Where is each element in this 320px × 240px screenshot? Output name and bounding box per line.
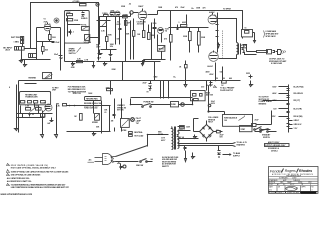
label fuse note rows (162, 157, 179, 168)
svg-text:.047: .047 (47, 122, 50, 125)
diode D4 bridge SE (209, 134, 211, 136)
legend row hot (129, 134, 144, 137)
svg-text:25uF: 25uF (96, 47, 100, 49)
wire cathode net (37, 42, 53, 47)
svg-text:HEATERS: HEATERS (237, 144, 246, 147)
tube V5 12AX7 recovery (44, 103, 52, 112)
label mixer row lower (56, 103, 67, 107)
svg-text:V5: V5 (44, 103, 46, 105)
svg-text:Rhodes: Rhodes (299, 169, 312, 173)
node dot bus a (215, 80, 217, 82)
wire B+ top bus (158, 11, 243, 30)
wire mains runs (131, 99, 193, 105)
resistor R1 trim input (11, 37, 24, 40)
wire V2 drops (100, 17, 126, 45)
svg-text:BL-R (TR): BL-R (TR) (294, 109, 303, 111)
node circle left V3 (130, 11, 133, 14)
wire V1 row (37, 27, 61, 29)
node dot bias (207, 110, 209, 112)
capacitor second stage mid (119, 27, 122, 32)
label top band extras (121, 4, 231, 11)
wire main bus (19, 80, 241, 82)
ground line filter (192, 153, 195, 159)
transformer T2 output (237, 43, 249, 55)
node circle bias (208, 104, 211, 107)
potentiometer treble (81, 23, 89, 30)
label second stage extras (101, 22, 121, 41)
plug AC mains (89, 154, 116, 165)
box hum balance (223, 115, 253, 127)
tube V4 vibrato (158, 28, 169, 34)
svg-text:ALL CAPACITORS 600V 20%: ALL CAPACITORS 600V 20% (7, 177, 30, 180)
svg-text:RD (CT): RD (CT) (294, 100, 301, 102)
svg-text:SPKR JACK: SPKR JACK (266, 35, 277, 38)
svg-text:6L6GC: 6L6GC (207, 66, 213, 68)
label heaters (237, 141, 248, 147)
resistor 220K slope (66, 12, 72, 16)
connector CP1 strip (287, 85, 290, 133)
wire bus taps (111, 45, 211, 99)
svg-text:T47: T47 (136, 122, 139, 125)
svg-text:V4: V4 (165, 30, 167, 33)
svg-text:DR: DR (278, 186, 280, 188)
label plate supply rows (220, 87, 235, 92)
resistor vib r1 (126, 31, 135, 37)
wire lower rows (17, 105, 57, 134)
resistor mid vert (74, 114, 82, 121)
svg-text:POWER SW: POWER SW (144, 101, 154, 103)
svg-text:8 OHM LOAD: 8 OHM LOAD (271, 62, 283, 65)
title block hline 2 (268, 178, 318, 180)
svg-text:www.schematicheaven.com: www.schematicheaven.com (1, 193, 33, 196)
wire dashes col (222, 31, 224, 58)
title block signature oval (286, 186, 298, 190)
wire input shield drop (22, 28, 37, 59)
wire tone net (68, 16, 81, 37)
box bias supply (191, 91, 206, 101)
svg-text:POT A: POT A (81, 23, 87, 26)
resistor 470K feedback (106, 86, 113, 90)
ground input jack (20, 59, 23, 63)
wire second stage coupling row (99, 16, 131, 18)
label reverb unit rows (25, 94, 38, 98)
svg-text:SAFETY: SAFETY (162, 165, 170, 168)
svg-text:AC: AC (89, 159, 93, 162)
wire ground row mid (121, 61, 161, 63)
label vib extras (137, 21, 157, 25)
tube V6A 6L6 upper (208, 12, 217, 24)
label dwell rows (84, 103, 102, 109)
ground mains safety (185, 151, 187, 162)
ground stage right (93, 62, 95, 68)
capacitor 25uF lower a (97, 50, 103, 60)
jack J1 mic input (3, 47, 24, 52)
svg-text:HIGH GAIN OPTIONAL MODEL ASSEM: HIGH GAIN OPTIONAL MODEL ASSEMBLY ONLY (11, 167, 57, 170)
svg-text:.01: .01 (104, 112, 106, 114)
wire sec mid (178, 138, 199, 140)
lamp pilot (131, 118, 142, 125)
svg-text:SWITCH: SWITCH (69, 53, 77, 55)
svg-text:SOME OPTIONAL USE CAPACITOR SE: SOME OPTIONAL USE CAPACITOR SELECTED FOR… (11, 170, 69, 173)
ground arrow b (36, 59, 38, 60)
resistor vib r2 (137, 31, 145, 38)
svg-text:REVERB: REVERB (29, 77, 37, 79)
wire heater lines (178, 143, 236, 147)
svg-text:B+: B+ (174, 76, 176, 78)
capacitor bass .1 (69, 30, 74, 35)
resistor driver plate (164, 35, 172, 43)
node dot bus c (130, 104, 132, 106)
svg-text:.1: .1 (72, 31, 73, 33)
box standby cell (240, 126, 253, 132)
label 470 top bridge (201, 85, 216, 88)
resistor lower r2 (35, 106, 41, 111)
resistor grid b 220K (198, 32, 206, 46)
label bias box right (206, 91, 214, 96)
box intensity pot (158, 46, 165, 52)
svg-text:22uF: 22uF (54, 54, 58, 56)
title block hline 6 (269, 191, 318, 193)
box speed pot (92, 114, 99, 125)
tube V1 shield circle (54, 18, 59, 23)
resistor grid a 220K (183, 32, 191, 41)
capacitor 25uF cathode V1 (52, 42, 60, 45)
switch ground reverse (136, 159, 153, 168)
capacitor driver cluster (177, 22, 187, 30)
wire gnd sw drop (115, 128, 122, 132)
capacitor 22uF decouple (54, 28, 63, 71)
node junction 525V (246, 73, 253, 79)
label bridge out (220, 134, 224, 138)
svg-text:100K: 100K (158, 7, 163, 9)
wire feedback top run (31, 3, 99, 61)
svg-text:INST TRIM: INST TRIM (11, 37, 20, 39)
title block hline 1 (268, 176, 318, 178)
svg-text:INT 50K: INT 50K (117, 110, 124, 112)
label reverb unit link (52, 87, 59, 91)
wire CP1 stubs (263, 87, 289, 117)
wire bridge left (194, 119, 200, 132)
resistor unit a (21, 101, 25, 104)
component death cap cluster (118, 163, 127, 170)
capacitor bus filter (143, 81, 152, 91)
ground power tubes (218, 43, 220, 48)
svg-text:250K: 250K (74, 20, 79, 22)
svg-text:NOTE: NOTE (158, 134, 164, 136)
title block black cell (301, 192, 317, 194)
svg-text:10%: 10% (110, 46, 114, 48)
svg-text:HOT LEAD: HOT LEAD (134, 134, 144, 137)
wire mains top run (131, 97, 193, 99)
svg-text:20uF: 20uF (143, 82, 147, 84)
wire bottom row stage (65, 43, 95, 62)
svg-text:470: 470 (164, 38, 167, 41)
svg-text:V1: V1 (44, 19, 46, 21)
wire bias spine (208, 86, 210, 112)
svg-text:GND OPTIONAL IN CASE GROUNDS: GND OPTIONAL IN CASE GROUNDS (11, 174, 41, 177)
wire bus stub left (19, 81, 37, 133)
jack J2 second input (29, 54, 37, 58)
wire grid feeds (187, 15, 199, 53)
ground driver mid (184, 81, 187, 87)
wire plate to OT bottom (219, 55, 237, 59)
plug cord hatching (111, 156, 115, 163)
switch power SW (142, 101, 154, 107)
title block slash 1 (282, 169, 284, 173)
svg-text:250V RATED (OHMS VALUE IN): 250V RATED (OHMS VALUE IN) (11, 164, 48, 167)
svg-text:GND SW: GND SW (136, 165, 144, 167)
tube V3 12AX7 driver (138, 5, 147, 20)
diode D2 bridge NE (209, 127, 211, 129)
label schem note box (265, 141, 290, 153)
svg-text:220K: 220K (201, 37, 206, 39)
wire vib link (154, 19, 156, 39)
diode D1 bridge NW (202, 127, 204, 129)
svg-text:470K 10%: 470K 10% (73, 92, 82, 95)
svg-text:JACK: JACK (5, 49, 11, 52)
wire plate to OT top (218, 19, 237, 43)
svg-text:BL-W (TRA): BL-W (TRA) (294, 86, 304, 89)
svg-text:1 MEG: 1 MEG (14, 42, 20, 44)
svg-text:GRN 6.3V: GRN 6.3V (294, 124, 303, 126)
capacitor lower c2 (47, 118, 54, 126)
wire mid bottom row (67, 131, 111, 133)
label CP1 left column (271, 87, 277, 119)
node dot bus d (192, 104, 194, 106)
label bracket speaker (264, 30, 280, 38)
potentiometer arrow mid (102, 22, 107, 27)
capacitor treble .047 (81, 12, 88, 21)
svg-text:PLATE SUPPLY: PLATE SUPPLY (220, 89, 234, 92)
ground mid bottom a (93, 132, 96, 136)
label transformer (161, 138, 166, 142)
plug P1 phone plug pair (257, 50, 286, 55)
wire lower row2 (101, 49, 117, 51)
svg-text:.02: .02 (32, 114, 34, 116)
svg-text:220K: 220K (183, 36, 188, 38)
label bias supply arrow (223, 152, 241, 158)
transformer T1 primary (172, 127, 180, 150)
resistor vib r3 (148, 33, 156, 40)
label bus 250 cells (215, 77, 232, 80)
title block tall row dividers (277, 186, 311, 192)
label 820 row lower (96, 44, 100, 48)
svg-text:250K: 250K (121, 6, 126, 8)
svg-text:.02 600V: .02 600V (137, 24, 145, 26)
ground mid bottom b (101, 132, 103, 134)
capacitor lower b (109, 50, 113, 56)
svg-text:220K: 220K (112, 69, 117, 71)
label feedback rows (68, 86, 87, 94)
svg-text:25uF: 25uF (55, 42, 59, 44)
svg-text:SPEED: SPEED (92, 122, 99, 124)
svg-text:820: 820 (45, 49, 48, 51)
label transformer left block (158, 132, 164, 136)
resistor bias lower (42, 47, 48, 55)
resistor R2 1MEG input (14, 41, 24, 44)
note 6 marker (7, 184, 10, 186)
label transformer right top (179, 127, 191, 131)
svg-text:25769-4: 25769-4 (271, 149, 277, 152)
title block tall row labels (269, 185, 315, 191)
svg-text:SHIELD: SHIELD (81, 18, 88, 20)
note 3 marker (7, 174, 10, 176)
title block hline 5 (268, 185, 318, 187)
wire mid row (67, 105, 111, 107)
wire driver column (169, 11, 209, 61)
box lower pot b (41, 114, 45, 117)
capacitor lower mid x (113, 111, 116, 119)
box lower pot (41, 114, 45, 118)
wire second row (97, 20, 111, 22)
svg-text:4.7 MEG: 4.7 MEG (73, 0, 81, 3)
svg-text:ADJ 15K: ADJ 15K (206, 94, 214, 97)
wire vib bottom row (144, 52, 166, 60)
tube V1 7025 first stage (44, 19, 51, 31)
svg-text:VOLUME: VOLUME (84, 42, 92, 44)
stage box tone controls (65, 11, 90, 44)
ground arrow c (142, 62, 144, 66)
svg-text:470: 470 (203, 6, 206, 9)
wire bus drop pair lower (161, 98, 164, 99)
wire mixer link (67, 105, 70, 107)
svg-text:100K: 100K (196, 7, 201, 9)
svg-text:7025: 7025 (44, 21, 48, 23)
node junction circle top corner (96, 3, 99, 6)
svg-text:LINE CONDITIONS NO SIGNAL MODE: LINE CONDITIONS NO SIGNAL MODE ALL CONTR… (11, 186, 69, 189)
label output jack note (269, 58, 287, 65)
svg-text:OUTPUT GROUND ONLY: OUTPUT GROUND ONLY (265, 145, 286, 147)
wire vibrato drops (131, 19, 162, 60)
wire bias out (209, 112, 225, 115)
resistor unit d (41, 101, 46, 104)
svg-text:ALL RESISTORS 1/2 WATT 10%: ALL RESISTORS 1/2 WATT 10% (7, 180, 32, 183)
svg-text:470: 470 (201, 85, 204, 88)
title block bottom cells (276, 192, 301, 194)
box reverb pan (85, 97, 102, 101)
rectifier bridge diamond (200, 121, 214, 142)
svg-text:.1: .1 (178, 22, 179, 24)
svg-text:100K: 100K (35, 106, 40, 108)
resistor unit b (28, 101, 32, 104)
box intensity lower (121, 119, 130, 133)
wire tube columns to bus (216, 49, 223, 81)
wire mid verticals (94, 99, 122, 132)
node dot mid a (69, 105, 71, 107)
svg-text:460: 460 (229, 77, 232, 80)
wire input to grid (23, 37, 37, 49)
svg-text:650VCT: 650VCT (179, 129, 186, 131)
svg-text:SCHEM 4: SCHEM 4 (276, 192, 283, 194)
switch standby upper (254, 127, 271, 131)
svg-text:Fender: Fender (270, 168, 283, 173)
svg-text:TO SPKR: TO SPKR (223, 8, 231, 10)
label vibrato rows (117, 104, 126, 111)
svg-text:.02: .02 (129, 4, 131, 6)
capacitor 500PF coupling (123, 14, 128, 18)
note 2 marker (7, 170, 10, 173)
wire HV secondary top (178, 127, 191, 131)
label bus upper cells (206, 71, 223, 74)
wire standby feed (257, 111, 272, 125)
wire tube pins column (216, 13, 219, 49)
label spare cluster (69, 48, 81, 55)
ground second stage (104, 62, 107, 66)
switch standby main (255, 129, 277, 140)
svg-text:5V 3A: 5V 3A (179, 136, 185, 139)
resistor second stage mid (106, 37, 109, 42)
capacitor heater tap (218, 146, 221, 158)
title block hline 3 (268, 180, 318, 182)
svg-text:NEUTRAL: NEUTRAL (134, 131, 143, 134)
resistor unit c (34, 101, 38, 104)
svg-text:25uF: 25uF (97, 57, 101, 59)
node dot mid b (74, 105, 76, 107)
label bias values (211, 101, 216, 105)
wire second stage links (100, 17, 120, 50)
svg-text:1500: 1500 (52, 37, 56, 39)
svg-text:GRN-Y: GRN-Y (294, 120, 300, 122)
potentiometer arrows lower left (31, 108, 47, 113)
resistor 470 bridge out (216, 129, 223, 133)
ground bridge (194, 135, 197, 139)
resistor 1K driver left (179, 61, 187, 81)
wire mains to transformer (148, 135, 169, 147)
resistor 1MEG grid V2 (102, 13, 108, 16)
svg-text:SUPPLY: SUPPLY (233, 155, 241, 157)
svg-text:12AX7: 12AX7 (138, 5, 143, 8)
node dot bus b (222, 80, 224, 82)
wire bottom row join (97, 57, 121, 62)
wire OT secondary out (243, 45, 257, 55)
label lower mid extras (96, 110, 114, 129)
wire V3 net (131, 11, 158, 17)
resistor hum 2.2K (77, 59, 83, 63)
wire AC leads (116, 146, 148, 162)
capacitor standby (252, 124, 257, 127)
resistor 47K vert (125, 21, 132, 26)
svg-text:Rogers: Rogers (285, 169, 296, 173)
label CP2 right column (289, 120, 303, 130)
label full wave rows (208, 116, 219, 124)
label AC volts (88, 161, 95, 163)
svg-text:100K: 100K (88, 93, 93, 95)
tube V2A 7025 (110, 10, 115, 16)
ground lower mid b (55, 134, 58, 138)
title block frame (269, 167, 319, 194)
tube V6B 6L6 lower (207, 51, 218, 68)
ground vib (143, 60, 145, 64)
node dot mains a (147, 134, 149, 136)
wire bridge right (214, 131, 217, 133)
svg-text:SWITCH: SWITCH (263, 137, 271, 139)
svg-text:TRANSDUCER: TRANSDUCER (25, 96, 38, 99)
jack J3 speaker main (242, 28, 253, 39)
title block bottom text (269, 191, 299, 194)
box reverb unit lower (20, 92, 51, 105)
resistor bus right (221, 81, 226, 88)
capacitor bus 20uF right (206, 81, 213, 88)
resistor 4.7MEG on top wire (73, 0, 87, 6)
svg-text:RD-GRN-W: RD-GRN-W (294, 93, 304, 95)
wire vib drop long (154, 62, 156, 81)
tube V2B 7025 (115, 11, 120, 16)
diode D3 bridge SW (202, 134, 204, 136)
title block slash 2 (297, 169, 299, 173)
resistor cathode 1.5K V1 (49, 31, 56, 42)
resistor 250K mid (67, 19, 79, 23)
ground lower mid a (41, 134, 44, 138)
